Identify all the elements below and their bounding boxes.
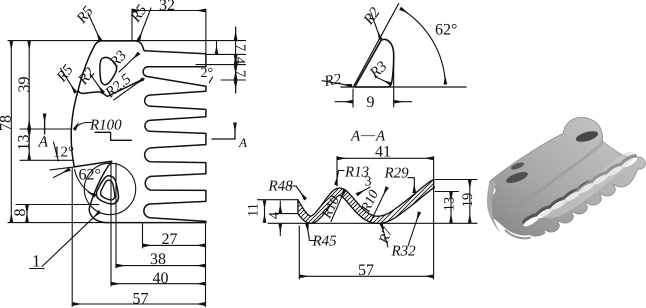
oval hole (item 1) inner	[101, 180, 115, 200]
svg-text:41: 41	[375, 144, 391, 161]
top extension line y=40.6	[8, 40, 246, 42]
svg-text:R45: R45	[312, 234, 338, 250]
svg-text:32: 32	[159, 0, 175, 14]
section strip (hatched sheet cross-section)	[298, 180, 435, 224]
ext right long vertical	[433, 157, 435, 280]
bottom extension line y=222.6	[8, 222, 106, 224]
svg-text:9: 9	[367, 94, 375, 111]
svg-text:A: A	[350, 129, 361, 145]
detail leader R3	[375, 77, 391, 85]
ext 57 left	[298, 226, 300, 279]
ext lines for 32	[132, 9, 206, 53]
leader R2	[90, 74, 103, 93]
svg-text:R2: R2	[322, 71, 343, 90]
leader R2.5	[114, 79, 143, 100]
dim 8	[26, 206, 28, 222]
svg-text:R2: R2	[360, 4, 384, 28]
dim 57	[73, 303, 204, 305]
ext line y=160.3	[20, 159, 74, 161]
detail leader R2 left	[322, 81, 352, 86]
3D hump hole	[575, 129, 600, 144]
dim 39	[28, 42, 30, 128]
svg-text:R5: R5	[127, 2, 151, 26]
leader R5 top-left	[88, 13, 100, 40]
svg-text:R48: R48	[268, 179, 294, 195]
62 degree arc	[75, 170, 96, 196]
dim 4 arrows outside	[279, 201, 281, 213]
svg-text:3: 3	[365, 175, 372, 190]
leader R10 b	[371, 188, 387, 222]
svg-text:R100: R100	[89, 118, 122, 134]
svg-text:57: 57	[358, 262, 374, 279]
leader R7	[381, 224, 388, 248]
dim 32	[133, 10, 205, 12]
detail dim 9 arrows	[335, 101, 352, 103]
svg-text:12°: 12°	[53, 145, 74, 161]
detail base line	[341, 86, 466, 88]
12-degree reference line extension	[50, 167, 74, 170]
12 degree tick	[54, 142, 59, 161]
dim 13	[450, 193, 452, 223]
leader R5 lower-left	[61, 68, 76, 92]
leader R13	[336, 171, 344, 185]
svg-text:13: 13	[16, 135, 33, 151]
svg-text:62°: 62°	[79, 167, 101, 184]
leader 3	[357, 187, 370, 195]
ext line y=129	[20, 128, 71, 130]
svg-text:2°: 2°	[201, 66, 214, 81]
3D lower edge shadow	[505, 230, 531, 238]
3D bend crease shadow	[509, 141, 603, 212]
dim 78	[10, 42, 12, 222]
svg-text:38: 38	[150, 251, 166, 268]
3D top face highlight	[540, 152, 636, 218]
right stack dim line with arrows	[235, 27, 237, 93]
svg-text:A: A	[38, 134, 49, 151]
detail 62deg slant line	[353, 4, 399, 88]
ext 13	[435, 191, 459, 193]
2 degree tick	[209, 77, 212, 83]
part outline (front view comb)	[71, 41, 206, 223]
3D teeth slot shadows	[521, 152, 639, 228]
svg-text:4: 4	[232, 57, 248, 65]
dim 41	[338, 157, 433, 159]
svg-text:11: 11	[246, 203, 262, 217]
leader R100	[75, 123, 92, 130]
svg-text:4: 4	[267, 211, 283, 219]
detail circle around item 1	[84, 163, 135, 214]
svg-text:8: 8	[12, 209, 29, 217]
svg-text:—: —	[360, 128, 376, 143]
teardrop hole in upper lobe	[100, 57, 117, 84]
svg-text:40: 40	[153, 270, 169, 287]
svg-text:R3: R3	[106, 48, 130, 72]
ext line 4	[275, 213, 298, 215]
3D render: main plate silhouette	[488, 117, 645, 236]
3D small notch hole	[510, 161, 525, 171]
3D upper-left slot hole	[505, 170, 529, 185]
svg-text:R2: R2	[75, 65, 99, 89]
dim 40	[112, 283, 205, 285]
small arrow onto tooth1 level	[216, 42, 218, 54]
leader R3	[119, 53, 139, 72]
section base line	[268, 222, 477, 224]
svg-text:57: 57	[133, 291, 149, 308]
ext 19	[435, 179, 477, 181]
svg-text:27: 27	[162, 231, 178, 248]
detail leader R2 top	[371, 13, 381, 39]
leader R45	[307, 224, 314, 241]
svg-text:R10: R10	[319, 194, 343, 222]
leader item 1	[42, 212, 100, 267]
dim 11	[264, 201, 266, 223]
svg-text:R5: R5	[73, 3, 97, 27]
dim 57 section	[300, 275, 432, 277]
section arrow A right	[212, 123, 235, 139]
dim 13	[28, 130, 30, 159]
step symbol under R100	[95, 132, 131, 140]
ext line y=204.5	[16, 204, 99, 206]
svg-text:R32: R32	[391, 244, 417, 260]
right stack ext lines 7/4/7	[196, 54, 246, 80]
detail shape (enlarged hole profile)	[355, 39, 394, 87]
dim 19	[469, 181, 471, 223]
svg-text:39: 39	[16, 77, 33, 93]
svg-text:R5: R5	[53, 62, 77, 86]
bottom dim ext verticals	[72, 163, 205, 307]
svg-text:1: 1	[32, 252, 41, 271]
svg-text:78: 78	[0, 115, 15, 131]
ext 41 left (crest)	[336, 157, 338, 187]
svg-text:R29: R29	[384, 166, 410, 182]
leader R29	[408, 178, 414, 193]
leader R48	[290, 186, 306, 199]
section arrow A left	[44, 114, 46, 134]
svg-text:R3: R3	[367, 59, 391, 83]
leader R10 a	[331, 191, 345, 222]
dim 38	[117, 265, 205, 267]
svg-text:19: 19	[460, 193, 476, 208]
leader R5 top-right	[139, 8, 151, 40]
3D left end wave shading	[487, 181, 500, 233]
svg-text:13: 13	[442, 197, 458, 212]
svg-text:7: 7	[232, 44, 248, 51]
oval hole (item 1) outer	[96, 176, 118, 204]
svg-text:A: A	[238, 135, 247, 150]
svg-text:7: 7	[232, 70, 248, 77]
dim 27	[144, 244, 205, 246]
leader R32	[408, 213, 419, 247]
detail ext lines for 9	[353, 64, 394, 107]
ext line 11 top	[258, 199, 299, 201]
detail 62deg arc	[401, 9, 446, 85]
62 arc outside arrow	[54, 169, 70, 177]
svg-text:A: A	[375, 129, 386, 145]
svg-text:62°: 62°	[435, 22, 457, 39]
